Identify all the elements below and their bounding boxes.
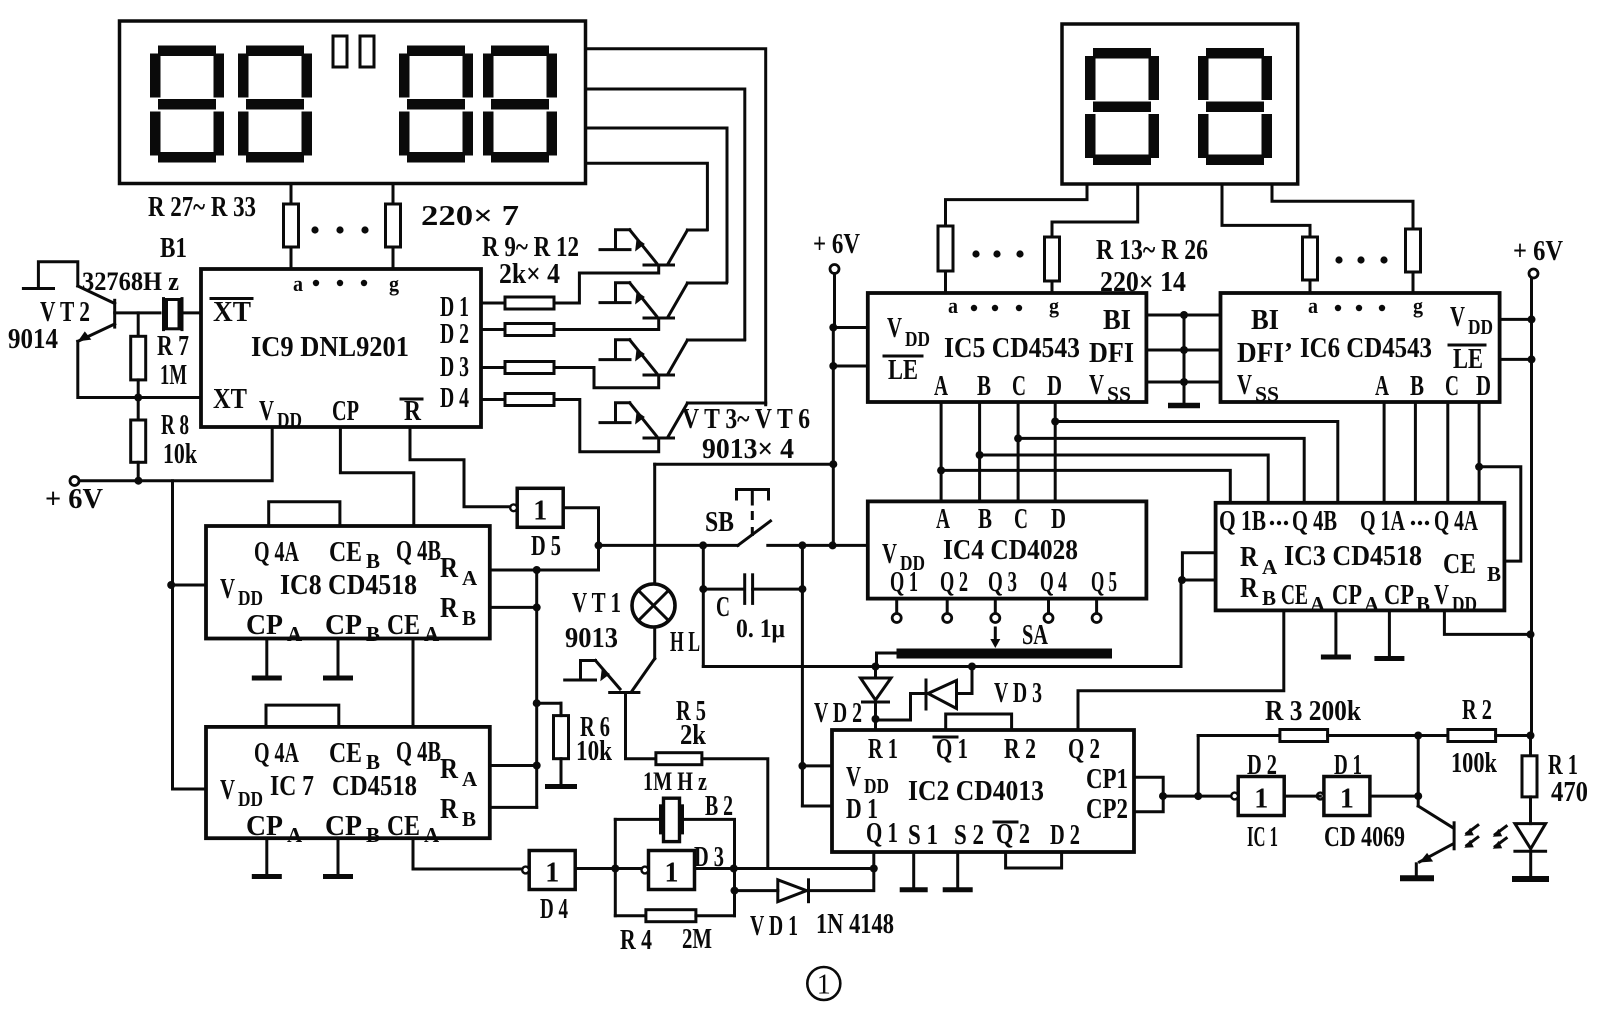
wire IC6 B to IC3 [1414,402,1417,503]
dots (more resistors) [311,226,368,233]
contact Q [991,614,1000,623]
terminal +6V right [1529,269,1538,278]
svg-text:IC4 CD4028: IC4 CD4028 [943,534,1078,566]
svg-text:C: C [716,591,730,623]
resistor R33 (of R27~R33) [386,204,401,247]
wire IC2 Q1bar-R2 staple [946,714,1012,730]
svg-text:R 8: R 8 [161,409,189,441]
wire IC2 Q1 down [872,852,875,869]
wire IC3 VDD to rail [1444,610,1531,634]
svg-text:9013: 9013 [565,622,618,654]
wire R33 to IC9 pin g [392,247,395,269]
wire to R4 [615,914,646,917]
diode VD2 [861,667,892,720]
wire SB to IC4 VDD [768,544,868,547]
svg-text:g: g [1413,293,1423,318]
svg-text:V T 1: V T 1 [572,587,621,619]
ground IC2 S2 [943,852,973,890]
wire display2 to R13 [946,184,1088,226]
wire IC9 Rbar to D5 in [410,427,509,507]
node IC8 VDD [167,581,175,589]
wire IC9 to R11 [481,366,505,369]
counter IC7 CD4518 box [206,727,490,838]
svg-text:SA: SA [1022,619,1048,651]
svg-text:B: B [462,606,476,630]
wire display1 seg-g to R33 [392,184,395,205]
node +6V rail/IC4 [829,541,837,549]
wire to VD1 [735,889,778,892]
resistor R7 1M [131,336,146,380]
svg-text:R: R [440,793,459,825]
transistor VT4 9013 [600,283,687,318]
transistor VT1 9013 [565,661,639,693]
wire IC3 RB [1181,579,1216,582]
wire to IC2 VDD [802,764,832,767]
resistor R26 [1406,229,1421,272]
wire IC4 Q stub [994,599,997,614]
wire R7 to XT line [137,380,140,398]
svg-text:32768H z: 32768H z [82,267,179,296]
resistor R1 470 [1522,756,1537,797]
wire R26 to IC6 g [1412,272,1415,293]
svg-text:R 2: R 2 [1004,733,1036,765]
wire HL to +6V [655,463,834,466]
wire VT6 collector [687,402,765,405]
svg-text:DD: DD [238,787,263,811]
dots (more resistors) [972,250,1023,257]
wire to R3 [1198,734,1280,737]
svg-text:CP: CP [325,609,362,641]
wire R8 to +6V rail [137,462,140,480]
wire to IC6 VDD [1500,318,1532,321]
resistor R3 200k [1280,730,1328,742]
wire IC8 CEA to IC7 [412,639,415,727]
svg-text:1: 1 [1254,784,1268,815]
resistor R5 2k [656,753,702,765]
wire IC6 D to IC3 [1478,402,1481,503]
node R8/+6V [134,477,142,485]
wire VT5 collector [687,339,744,342]
svg-text:DD: DD [238,586,263,610]
wire VT1 base to R5 [626,693,656,759]
resistor R10 [505,324,554,336]
svg-text:S 2: S 2 [954,819,984,851]
wire +6V rail middle [832,328,835,546]
svg-text:V: V [1450,301,1465,333]
resistor R2 100k [1448,730,1496,742]
node C right [798,585,806,593]
7-seg digit 1 [150,46,224,163]
wire down to lamp HL [653,464,656,584]
svg-text:1M H z: 1M H z [643,767,707,796]
overline LE IC5 [884,355,922,358]
wire to IC6 LE [1500,358,1532,361]
crystal B1 32768Hz [164,299,183,330]
wire into IC2 R1 [874,719,877,730]
node VD2/VD3/R1pin [872,715,880,723]
node B [976,451,984,459]
svg-text:A: A [424,622,440,646]
svg-text:2M: 2M [682,923,712,955]
overline LE IC6 [1449,344,1485,347]
svg-text:0. 1μ: 0. 1μ [736,614,785,643]
svg-text:DD: DD [1452,592,1477,616]
svg-text:B: B [977,370,991,402]
node Q1/VD1 [870,865,878,873]
node D4 out [611,865,619,873]
node IC2 VDD tap [798,762,806,770]
wire node to SB [599,544,738,547]
LED (infrared emitter) [1515,824,1546,876]
light arrow [1464,837,1478,848]
wire IC3 RA [1182,553,1215,580]
decoder IC6 CD4543 box [1221,293,1500,402]
svg-text:R: R [1240,572,1259,604]
contact Q [1092,614,1101,623]
svg-text:1M: 1M [160,359,187,391]
wire R20 to IC6 a [1309,280,1312,293]
svg-text:A: A [462,566,478,590]
resistor R13 (of R13~R26) [938,226,953,271]
wire VT3 collector [687,229,706,232]
resistor R11 [505,362,554,374]
node R6 tap [533,699,541,707]
wire IC6 A to IC3 [1383,402,1386,503]
svg-text:XT: XT [213,296,251,328]
svg-text:R 27~ R 33: R 27~ R 33 [148,191,256,223]
wire IC4 Q stub [1047,599,1050,614]
wire B1 to IC9 XTbar [184,311,201,314]
wire D4-D3-Q1 line [574,867,874,870]
svg-text:S 1: S 1 [908,819,938,851]
overline XT [211,297,252,300]
resistor R20 [1303,237,1318,280]
wire IC4 Q stub [1095,599,1098,614]
svg-text:Q 4B: Q 4B [396,535,441,567]
node C left [699,585,707,593]
node D/CEB [1475,463,1483,471]
svg-text:CP: CP [1384,579,1414,611]
svg-text:CD4518: CD4518 [332,770,417,802]
wire R3 to R2 [1328,734,1448,737]
node VDD rail [1527,630,1535,638]
svg-text:R 2: R 2 [1462,694,1492,726]
wire B2 right down [685,819,735,915]
svg-text:C: C [1012,370,1026,402]
svg-text:CE: CE [387,609,420,641]
svg-text:D 2: D 2 [1247,749,1277,781]
wire DFI-DFI' [1146,349,1220,352]
wire IC3 CEA to IC2 Q2 [1078,610,1284,730]
contact Q [943,614,952,623]
node SB/C [699,541,707,549]
wire IC5 B down [978,402,981,501]
node R2/rail/R1 [1527,732,1535,740]
wire to IC8 VDD [171,584,206,587]
svg-text:Q 1A: Q 1A [1360,505,1405,537]
svg-text:+ 6V: + 6V [1513,235,1563,267]
svg-text:DD: DD [277,408,302,432]
svg-text:Q 4A: Q 4A [254,536,299,568]
svg-text:V: V [1089,369,1104,401]
svg-text:Q 2: Q 2 [1068,733,1100,765]
dots (more resistors) [1335,256,1387,263]
selector SA wiper arrow [990,628,1000,648]
svg-text:LE: LE [888,354,918,386]
wire +6V right rail [1530,278,1533,736]
svg-text:Q 1: Q 1 [866,817,898,849]
wire R13 to IC5 a [944,271,947,293]
svg-text:DFI: DFI [1089,337,1134,369]
wire to IC5 VDD [833,326,868,329]
svg-text:9013× 4: 9013× 4 [702,433,794,465]
svg-text:+ 6V: + 6V [45,483,103,515]
wire to R7 [137,313,140,336]
wire D5 out [563,508,598,546]
ground IC2 S1 [900,852,928,890]
wire IC8 Q4A-CEB staple [269,502,340,526]
svg-text:A: A [936,503,950,535]
wire R5 to Q1 line [702,759,768,869]
svg-text:A: A [424,823,440,847]
contact Q [1044,614,1053,623]
svg-text:C: C [1014,503,1028,535]
svg-text:A: A [1262,555,1278,579]
wire HL/SA/reset line [703,665,1181,668]
figure number (1) [807,967,840,1001]
svg-text:D 3: D 3 [694,841,724,873]
svg-text:DD: DD [1468,315,1493,339]
gate D1 (inverter IC1) [1317,777,1370,816]
node C [1014,434,1022,442]
svg-text:Q 4: Q 4 [1040,566,1067,598]
svg-text:1: 1 [545,858,559,889]
node R7/R8/XT [134,394,142,402]
wire B2 left / R4 left [614,819,617,915]
wire VSS-VSS [1146,381,1220,384]
7-seg digit 3 [399,46,473,163]
bus wire D to IC3 [1055,422,1338,503]
diode VD1 1N4148 [778,880,809,902]
svg-text:V: V [1237,369,1252,401]
svg-text:470: 470 [1551,776,1588,808]
svg-text:D 2: D 2 [1050,819,1080,851]
wire to R1 [1529,736,1532,756]
terminal +6V middle [830,265,839,274]
svg-text:CE: CE [329,536,362,568]
ground LED [1512,876,1549,882]
ground VSS [1168,403,1200,409]
svg-text:IC9 DNL9201: IC9 DNL9201 [251,331,409,363]
svg-text:a: a [293,271,303,296]
svg-text:1: 1 [665,858,679,889]
wire IC7 RA [490,764,537,767]
svg-text:D 4: D 4 [440,382,469,414]
svg-text:D 4: D 4 [540,893,568,925]
node R3 tap [1194,792,1202,800]
colon dot upper-left [333,36,347,67]
7-seg digit 4 [483,46,557,163]
node R3/R2/D1 [1414,732,1422,740]
svg-text:g: g [1049,293,1059,318]
svg-text:R 4: R 4 [620,924,652,956]
counter IC8 CD4518 box [206,526,490,639]
contact Q [892,614,901,623]
svg-text:DD: DD [905,327,930,351]
wire IC6 C to IC3 [1446,402,1449,503]
svg-text:R 7: R 7 [157,330,189,362]
svg-text:CP2: CP2 [1086,793,1128,825]
svg-text:B: B [366,823,380,847]
svg-text:A: A [1375,370,1389,402]
svg-text:V D 3: V D 3 [994,677,1042,709]
svg-text:IC 1: IC 1 [1247,821,1278,853]
svg-text:1: 1 [1340,784,1354,815]
wire IC9 to R10 [481,328,505,331]
crystal B2 1MHz [661,798,683,841]
svg-text:IC2 CD4013: IC2 CD4013 [908,775,1044,807]
svg-text:Q 4B: Q 4B [1292,505,1337,537]
svg-text:B1: B1 [160,232,187,264]
svg-text:g: g [389,271,399,296]
capacitor C 0.1u [745,575,753,604]
resistor R6 10k [554,716,569,759]
light arrow [1493,826,1507,837]
wire to C [703,588,742,591]
lamp HL [632,584,675,627]
light arrow [1493,838,1507,849]
node SB/IC2 feed [798,541,806,549]
wire R1 to LED [1529,797,1532,824]
svg-text:B: B [1410,370,1424,402]
wire D2 out to D1 in [1284,795,1320,798]
wire RA/RB to reset line [1180,580,1183,667]
wire IC2 Q2bar-D2 staple [1006,852,1062,868]
wire display D4 digit line to VT6 [586,49,766,405]
svg-text:BI: BI [1251,304,1279,336]
node CP1/CP2 [1159,792,1167,800]
svg-text:9014: 9014 [8,323,58,355]
counter IC3 CD4518 box [1216,503,1505,611]
svg-text:V: V [846,761,861,793]
wire IC5 A down to IC4 A [940,402,943,501]
node RA/RB [1178,576,1186,584]
resistor R12 [505,394,554,406]
wire IC9 to R9 [481,302,505,305]
wire VD1 to Q1 node [809,869,874,891]
switch SB (pushbutton) [737,490,771,546]
IC9 pins a..g dots [313,280,367,286]
wire to D2 in [1163,795,1231,798]
ground IC8 CPA [252,639,282,679]
diode VD3 [878,668,972,721]
svg-text:R: R [1240,541,1259,573]
svg-text:Q 4B: Q 4B [396,736,441,768]
node A [937,466,945,474]
svg-text:V D 2: V D 2 [814,697,862,729]
colon dot upper-right [360,36,374,67]
svg-text:1: 1 [817,970,831,1001]
ground IC8 CPB [323,639,353,679]
svg-text:1: 1 [533,495,547,526]
svg-text:Q 2: Q 2 [940,566,968,598]
node VD1 anode [731,887,739,895]
wire to IC2 D1 [802,805,832,808]
display LED2 frame (seconds) [1062,24,1298,184]
svg-text:10k: 10k [576,735,613,767]
wire to IC2 VDD/D1 [801,545,804,806]
node D3 out/B2 [730,865,738,873]
flip-flop IC2 CD4013 box [832,730,1134,852]
wire IC5 C down [1017,402,1020,501]
wire CEB loop [1479,467,1521,561]
svg-text:D: D [1051,503,1066,535]
wire display2 to R26 [1272,184,1413,229]
svg-text:CP1: CP1 [1086,763,1128,795]
overline R [401,398,422,401]
wire IC4 Q stub [895,599,898,614]
svg-text:D 3: D 3 [440,351,469,383]
wire IC5 D down [1054,402,1057,501]
gate D4 (inverter) [522,851,575,890]
svg-text:+ 6V: + 6V [813,228,860,260]
svg-text:Q 1B: Q 1B [1219,505,1266,537]
ground IC3 CPB [1374,610,1404,658]
wire C to node [753,588,803,591]
wire CP1-CP2 bracket [1134,777,1163,812]
wire down to HL line [702,545,705,666]
svg-text:B: B [462,807,476,831]
svg-text:D 1: D 1 [1334,749,1362,781]
bus wire C to IC3 [1018,438,1304,502]
resistor R8 10k [131,420,146,462]
wire IC9 CP to IC8 Q4B [340,427,413,526]
svg-text:B: B [1487,562,1501,586]
svg-text:IC3 CD4518: IC3 CD4518 [1284,540,1422,572]
svg-text:100k: 100k [1451,747,1498,779]
svg-text:IC5 CD4543: IC5 CD4543 [944,332,1080,364]
node VSS [1180,378,1188,386]
svg-text:V: V [220,573,235,605]
svg-text:Q 5: Q 5 [1091,566,1117,598]
gate D3 (inverter) [642,851,695,890]
svg-text:2k× 4: 2k× 4 [499,258,560,290]
svg-text:A: A [1310,592,1326,616]
wire IC7 CEA to D4 [413,838,522,869]
wire display1 seg-a to R27 [290,184,293,205]
svg-text:R 1: R 1 [868,733,898,765]
svg-text:SS: SS [1255,382,1279,406]
wire to R6 [537,702,561,705]
gate D5 (inverter) [510,488,563,527]
wire VT2 emitter to IC9 XT [78,341,201,397]
transistor (opto output) [1416,796,1454,876]
op IC9 DNL9201 box [201,269,481,427]
svg-text:SS: SS [1107,382,1131,406]
7-seg digit 2 [238,46,312,163]
wire IC4 Q stub [946,599,949,614]
svg-text:CP: CP [325,810,362,842]
node SA/VD2 [872,663,880,671]
ground IC7 CPB [323,838,353,876]
svg-text:CE: CE [1443,548,1476,580]
svg-text:220× 7: 220× 7 [421,200,519,232]
gate D2 (inverter IC1) [1231,777,1284,816]
resistor R9 [505,297,554,309]
svg-text:R 13~ R 26: R 13~ R 26 [1096,234,1208,266]
transistor VT5 9013 [600,340,687,375]
terminal +6V left [70,477,79,486]
